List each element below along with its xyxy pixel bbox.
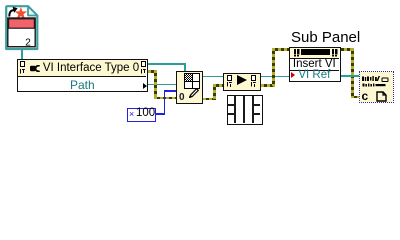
svg-text:2: 2 xyxy=(25,38,31,49)
